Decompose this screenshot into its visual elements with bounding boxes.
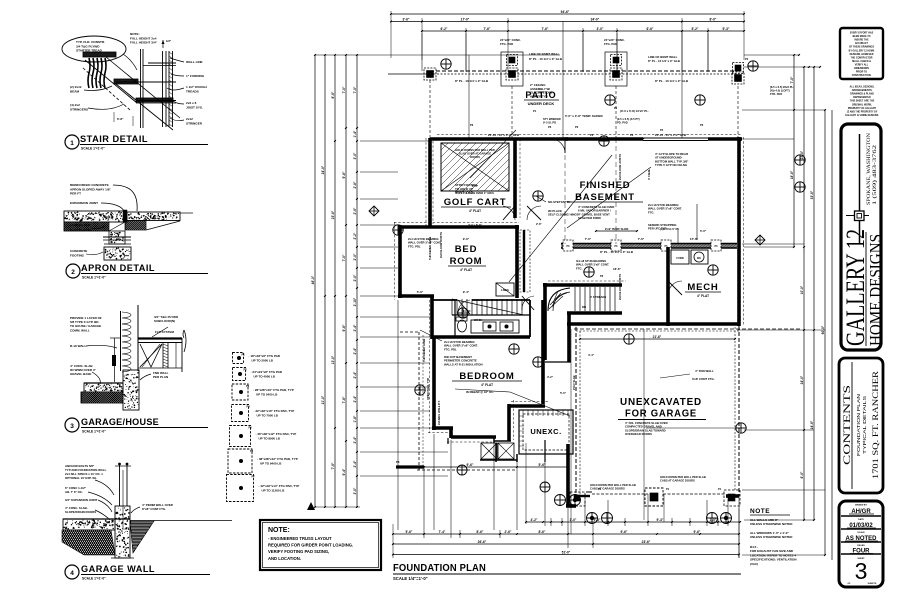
stair flight lower-left with treads — [452, 299, 530, 315]
svg-text:1" FURRING: 1" FURRING — [186, 74, 205, 78]
svg-text:9'-6": 9'-6" — [621, 530, 628, 534]
svg-text:APRON DETAIL: APRON DETAIL — [81, 263, 155, 274]
top dim extension verticals to patio — [422, 33, 738, 137]
svg-text:4" FLAT: 4" FLAT — [460, 268, 472, 272]
svg-text:AB. 7' 6" OC.: AB. 7' 6" OC. — [65, 490, 83, 494]
svg-text:6'-0": 6'-0" — [800, 471, 804, 478]
svg-text:10'-0": 10'-0" — [800, 285, 804, 294]
svg-text:21'-0": 21'-0" — [321, 395, 325, 404]
svg-text:P2: P2 — [745, 57, 749, 61]
detail 2: apron detail drawing — [55, 183, 193, 260]
detail 3: garage/house wall section drawing — [70, 305, 186, 410]
svg-text:FOUNDATION PLAN: FOUNDATION PLAN — [393, 563, 486, 574]
svg-text:2x8 FLOOR JOISTS: 2x8 FLOOR JOISTS — [439, 232, 443, 258]
svg-text:2x8 FLOOR JOISTS: 2x8 FLOOR JOISTS — [618, 274, 622, 300]
svg-text:P6: P6 — [470, 123, 474, 127]
svg-text:SUBFLOOR(N): SUBFLOOR(N) — [154, 319, 175, 323]
svg-text:DESIGNS, HOWEVER: DESIGNS, HOWEVER — [850, 54, 874, 56]
svg-text:ROOM: ROOM — [450, 256, 483, 267]
top dimension line tier 3 — [422, 30, 744, 32]
svg-text:SCALE: SCALE — [857, 531, 865, 534]
svg-text:P2: P2 — [630, 133, 634, 137]
extension lines right walls to right dims — [742, 110, 825, 555]
svg-text:P1: P1 — [718, 487, 722, 491]
svg-text:15'-6": 15'-6" — [690, 237, 699, 241]
svg-text:2'-4": 2'-4" — [353, 436, 357, 443]
svg-text:NOTE:: NOTE: — [268, 527, 290, 534]
heavy black bar P7 marker — [396, 465, 424, 468]
svg-text:4'-2": 4'-2" — [547, 375, 554, 379]
svg-text:8"x8" CONT FTG.: 8"x8" CONT FTG. — [142, 507, 166, 511]
patio pad column line left — [429, 80, 431, 138]
svg-text:- 28"x28"x10" FTG PAD, TYP: - 28"x28"x10" FTG PAD, TYP — [253, 388, 294, 392]
garage wall note right — [660, 369, 715, 381]
golf cart slab pad with X brace — [393, 143, 602, 195]
svg-text:PATIO: PATIO — [525, 90, 556, 100]
svg-text:8" PL - 10 1/4' x 3" GLB: 8" PL - 10 1/4' x 3" GLB — [455, 79, 489, 83]
svg-text:P6: P6 — [600, 274, 604, 278]
svg-text:ALL IDEAS, DESIGNS,: ALL IDEAS, DESIGNS, — [850, 86, 875, 89]
svg-text:3'-0": 3'-0" — [597, 27, 604, 31]
title block: disclaimer box — [840, 28, 883, 79]
svg-text:FTG.: FTG. — [576, 266, 583, 270]
title block: sheet info box — [839, 501, 883, 587]
svg-text:FOUNDATION PLAN: FOUNDATION PLAN — [856, 394, 861, 456]
bedroom west notes — [420, 330, 482, 366]
svg-text:- 18"x18"x8" FTG PAD: - 18"x18"x8" FTG PAD — [249, 354, 281, 358]
svg-text:20(+4.5) (LOFT): 20(+4.5) (LOFT) — [770, 89, 790, 93]
svg-text:15'-6": 15'-6" — [331, 210, 335, 219]
svg-text:FOOTING: FOOTING — [70, 253, 85, 257]
svg-text:4'-2": 4'-2" — [531, 518, 538, 522]
svg-text:P6: P6 — [548, 125, 552, 129]
separator line left of title block — [831, 110, 833, 560]
svg-text:(9.5 x 6.5) (0.5 PT): (9.5 x 6.5) (0.5 PT) — [617, 117, 640, 121]
svg-text:- 24"x24"x8" FTG PAD: - 24"x24"x8" FTG PAD — [251, 370, 283, 374]
plan title: FOUNDATION PLAN — [393, 563, 741, 581]
svg-text:7'-0": 7'-0" — [342, 254, 346, 261]
svg-text:TREADS: TREADS — [186, 89, 199, 93]
svg-text:(9'-0 x 6'-8) 13'x5' PL.: (9'-0 x 6'-8) 13'x5' PL. — [620, 109, 649, 113]
svg-text:FTG. PAD: FTG. PAD — [500, 42, 513, 46]
svg-text:1: 1 — [70, 140, 74, 147]
svg-text:7'-6": 7'-6" — [585, 237, 592, 241]
svg-text:UP TO 2000 LB: UP TO 2000 LB — [252, 358, 274, 362]
svg-text:P2: P2 — [590, 133, 594, 137]
svg-text:5'-0" x 3'-8" TEMP. SLIDER: 5'-0" x 3'-8" TEMP. SLIDER — [565, 114, 604, 118]
svg-text:4'-4": 4'-4" — [588, 353, 595, 357]
detail 1 leader notes — [62, 32, 207, 125]
svg-text:24'-0": 24'-0" — [800, 375, 804, 384]
svg-text:UP TO 4000 LB: UP TO 4000 LB — [254, 374, 276, 378]
svg-text:BED: BED — [455, 244, 477, 255]
svg-text:6'-8": 6'-8" — [117, 117, 124, 121]
svg-text:AND LOCATION.: AND LOCATION. — [268, 556, 301, 561]
svg-text:3'-6": 3'-6" — [403, 17, 410, 21]
svg-text:24'-0": 24'-0" — [321, 165, 325, 174]
svg-text:UP TO 8900 LB: UP TO 8900 LB — [259, 436, 281, 440]
pad markers lower-left cluster — [457, 465, 550, 492]
door swing golf cart to basement — [551, 139, 565, 153]
extra annotation texts upper center — [470, 106, 704, 132]
scattered footing markers — [393, 95, 805, 395]
patio deck footing pad 3 — [605, 52, 627, 86]
svg-text:NO-STEP ENTRY: NO-STEP ENTRY — [548, 200, 571, 204]
svg-text:3'-0 x 6'-8": 3'-0 x 6'-8" — [468, 223, 483, 227]
svg-text:24'-10 - 10' x 4'-2" GLB: 24'-10 - 10' x 4'-2" GLB — [488, 133, 519, 137]
svg-text:CABS AT GARAGE DOORS: CABS AT GARAGE DOORS — [660, 479, 695, 483]
svg-text:EXPANSION JOINT: EXPANSION JOINT — [70, 201, 98, 205]
svg-text:5'-0": 5'-0" — [560, 391, 567, 395]
svg-text:SHALL CHECK &: SHALL CHECK & — [852, 60, 871, 63]
room label: BED ROOM — [417, 237, 486, 294]
extra texts patio right — [648, 55, 794, 96]
svg-text:HOLD DOWN PER WALL PER SLAB: HOLD DOWN PER WALL PER SLAB — [590, 483, 636, 487]
svg-text:REPRESENTED: REPRESENTED — [853, 97, 871, 99]
bath south wall heavy — [433, 335, 530, 339]
mech footing marker — [708, 265, 718, 275]
svg-text:ARRANGEMENTS,: ARRANGEMENTS, — [852, 89, 873, 92]
svg-text:P1: P1 — [614, 106, 618, 110]
bath/hall partition walls — [433, 300, 543, 404]
svg-text:8" PL - 10 1/4' x 3" GLB: 8" PL - 10 1/4' x 3" GLB — [529, 57, 563, 61]
svg-text:P6: P6 — [575, 125, 579, 129]
svg-text:4" FLAT: 4" FLAT — [481, 383, 493, 387]
svg-text:6'-2": 6'-2" — [441, 27, 448, 31]
svg-text:TYPE V GYP ON CELNG: TYPE V GYP ON CELNG — [655, 163, 687, 167]
svg-text:LINE OF BSMT WALL: LINE OF BSMT WALL — [529, 52, 560, 56]
svg-text:FOR GARAGE: FOR GARAGE — [625, 409, 697, 420]
svg-text:94'-6": 94'-6" — [561, 10, 570, 14]
svg-text:3'-0": 3'-0" — [353, 152, 357, 159]
mech closets WH and furnace — [671, 250, 708, 264]
window wells with X lower-left — [481, 443, 514, 459]
svg-text:7'-6": 7'-6" — [542, 27, 549, 31]
svg-text:2'-4": 2'-4" — [353, 347, 357, 354]
garage interior top dim — [580, 338, 735, 340]
svg-text:UP TO 5400 LB: UP TO 5400 LB — [256, 392, 278, 396]
detail 1: stair detail drawing — [83, 39, 180, 130]
svg-text:7'-0": 7'-0" — [342, 86, 346, 93]
svg-text:P5: P5 — [249, 426, 253, 430]
svg-text:ORIGINAL WORK,: ORIGINAL WORK, — [852, 103, 872, 106]
svg-text:2'-10": 2'-10" — [353, 297, 357, 306]
svg-text:BASEMENT: BASEMENT — [575, 192, 635, 203]
logo drafting symbol — [846, 134, 869, 243]
note box: engineered truss layout — [260, 520, 381, 570]
room label: BEDROOM — [452, 371, 522, 394]
svg-text:46'-0": 46'-0" — [311, 275, 315, 284]
extra texts basement interior — [576, 259, 621, 278]
svg-text:THE CONTRACTOR: THE CONTRACTOR — [851, 56, 873, 59]
svg-text:P2: P2 — [660, 128, 664, 132]
svg-text:HOLD DOWN PER WALL PER SLAB: HOLD DOWN PER WALL PER SLAB — [660, 475, 706, 479]
extension lines from wall corners to left dim fan — [360, 141, 448, 476]
svg-text:9'-6": 9'-6" — [467, 463, 474, 467]
mech room walls heavy — [567, 247, 739, 326]
svg-text:P4: P4 — [247, 405, 251, 409]
svg-text:DATE: DATE — [858, 518, 864, 521]
stud wall note above beam — [648, 203, 697, 244]
golf cart door arc — [503, 206, 515, 220]
svg-text:2x8 FLOOR JOISTS: 2x8 FLOOR JOISTS — [618, 154, 622, 180]
svg-text:4" FLAT: 4" FLAT — [469, 209, 481, 213]
patio deck footing pad 2 — [501, 52, 523, 86]
room label: UNEXCAVATED FOR GARAGE — [618, 397, 706, 436]
svg-text:SCALE 1'=1'-0": SCALE 1'=1'-0" — [82, 430, 106, 434]
svg-text:1701 SQ. FT. RANCHER: 1701 SQ. FT. RANCHER — [870, 371, 880, 479]
svg-text:SCALE 1'=1'-0": SCALE 1'=1'-0" — [82, 577, 106, 581]
svg-text:4" FDN WALL: 4" FDN WALL — [695, 369, 714, 373]
svg-text:STRINGER: STRINGER — [186, 121, 203, 125]
hall closets and landing — [496, 230, 530, 296]
basement leader diagonals — [509, 155, 651, 282]
svg-text:21'-6": 21'-6" — [653, 335, 662, 339]
small l-wall near unexc — [448, 438, 517, 462]
svg-text:- ENGINEERED TRUSS LAYOUT: - ENGINEERED TRUSS LAYOUT — [268, 536, 332, 541]
svg-text:24'-10 - 10' x 4'-2" GLB: 24'-10 - 10' x 4'-2" GLB — [655, 133, 686, 137]
svg-text:1/2": 1/2" — [166, 39, 172, 43]
svg-text:WC OH: WC OH — [474, 319, 483, 322]
svg-text:STRINGERS: STRINGERS — [70, 107, 88, 111]
diamond markers — [369, 206, 379, 216]
svg-text:- 38"x38"x12" FTG PAD, TYP: - 38"x38"x12" FTG PAD, TYP — [257, 457, 298, 461]
svg-text:DIMENSIONS: DIMENSIONS — [854, 68, 869, 70]
patio deck footing pad 4 right — [732, 63, 744, 85]
svg-text:12 AND THE PROPERTY OF: 12 AND THE PROPERTY OF — [847, 110, 878, 113]
svg-text:2'-4": 2'-4" — [353, 395, 357, 402]
svg-text:7'-0": 7'-0" — [790, 76, 794, 83]
svg-text:SELF-CLOSING HINGE: SELF-CLOSING HINGE — [548, 213, 579, 217]
golf cart east wall heavy — [513, 138, 517, 218]
svg-text:FULL HEIGHT 3/4": FULL HEIGHT 3/4" — [130, 41, 158, 45]
hall door arcs — [522, 206, 541, 310]
svg-text:3: 3 — [855, 558, 868, 584]
svg-text:6'-6": 6'-6" — [647, 27, 654, 31]
svg-text:1'-4": 1'-4" — [353, 130, 357, 137]
svg-text:[8.5 x 6.5] 22x2 PL.: [8.5 x 6.5] 22x2 PL. — [770, 85, 794, 89]
svg-text:8" PL - 10 1/4' x 3" GLB: 8" PL - 10 1/4' x 3" GLB — [648, 59, 680, 63]
lower-left small dims — [423, 463, 569, 468]
svg-text:UNEXCAVATED: UNEXCAVATED — [620, 397, 702, 408]
svg-text:THIS SHEET ARE THE: THIS SHEET ARE THE — [850, 100, 875, 103]
svg-text:UNLESS OTHERWISE NOTED: UNLESS OTHERWISE NOTED — [750, 535, 793, 539]
patio deck outline dashed — [388, 55, 738, 74]
svg-text:POLY SLAB: POLY SLAB — [572, 375, 576, 390]
svg-text:SLAB PER FNDN: SLAB PER FNDN — [578, 216, 601, 220]
svg-text:3'x8' CONT FTG.: 3'x8' CONT FTG. — [692, 377, 715, 381]
svg-text:COMM. WALL: COMM. WALL — [70, 328, 90, 332]
svg-text:SLOPE/DRAIN DOORS: SLOPE/DRAIN DOORS — [65, 510, 96, 514]
svg-text:OVERHEAD DOORS: OVERHEAD DOORS — [625, 432, 652, 436]
svg-text:(3)4-3'x1.5' PL: (3)4-3'x1.5' PL — [660, 227, 679, 231]
svg-text:1'-8": 1'-8" — [353, 415, 357, 422]
bath fixtures: vanity with two sinks — [471, 319, 519, 333]
svg-text:9'-6": 9'-6" — [694, 530, 701, 534]
svg-text:FTG.: FTG. — [648, 210, 655, 214]
interior rotated dim labels — [428, 154, 651, 390]
garage door hold-down notes — [590, 475, 706, 491]
room label: FINISHED BASEMENT — [567, 180, 643, 220]
svg-text:5'-2": 5'-2" — [692, 27, 699, 31]
pads at unexc corner — [555, 495, 581, 506]
bath fixtures: toilet — [456, 317, 467, 332]
patio deck footing pad P1 left — [424, 68, 436, 80]
svg-text:SCALE 1/4"=1'-0": SCALE 1/4"=1'-0" — [393, 576, 428, 581]
svg-text:BEDROOM: BEDROOM — [459, 371, 514, 382]
svg-text:4' 0 BAL: 4' 0 BAL — [647, 169, 651, 180]
svg-text:VERIFY ALL: VERIFY ALL — [855, 63, 869, 66]
svg-text:GARAGE/HOUSE: GARAGE/HOUSE — [81, 417, 159, 428]
svg-text:INSURE THE: INSURE THE — [854, 40, 869, 42]
svg-text:STARTER TREAD: STARTER TREAD — [76, 49, 103, 53]
svg-text:8'-0 x 4'-0 SLAB OVER 4" GRVL: 8'-0 x 4'-0 SLAB OVER 4" GRVL — [456, 191, 495, 195]
svg-text:9'x9' TEMP. SLDR.: 9'x9' TEMP. SLDR. — [605, 227, 629, 231]
svg-text:PROPERTY OF GALLERY: PROPERTY OF GALLERY — [848, 107, 877, 110]
svg-text:4: 4 — [70, 570, 74, 577]
svg-text:2'-4": 2'-4" — [353, 324, 357, 331]
svg-text:P1: P1 — [533, 109, 537, 113]
svg-text:9'-3": 9'-3" — [657, 518, 664, 522]
svg-text:JOIST SYS.: JOIST SYS. — [186, 105, 203, 109]
golf cart west wall heavy — [428, 138, 432, 227]
svg-text:BEAM: BEAM — [70, 89, 80, 93]
svg-text:NOTE: NOTE — [750, 508, 770, 515]
svg-text:REQUIRED FOR GIRDER POINT LOAD: REQUIRED FOR GIRDER POINT LOADING. — [268, 543, 353, 548]
svg-text:STY WINDOW: STY WINDOW — [543, 117, 561, 121]
patio annotation texts — [455, 38, 689, 98]
patio pad column line 2 — [511, 86, 513, 138]
svg-text:8'-0": 8'-0" — [472, 184, 479, 188]
left dimension lines fan — [311, 54, 391, 508]
svg-text:P1: P1 — [242, 353, 246, 357]
svg-text:9'-6": 9'-6" — [463, 237, 470, 241]
detail 1 title: STAIR DETAIL — [65, 134, 208, 151]
title block: GALLERY 12 HOME DESIGNS logo box — [841, 124, 885, 350]
patio pad column line 3 — [615, 86, 617, 138]
svg-text:CONSTRUCTION.: CONSTRUCTION. — [852, 75, 872, 77]
svg-text:7'-6": 7'-6" — [484, 27, 491, 31]
svg-text:7'-8": 7'-8" — [342, 396, 346, 403]
svg-text:2'-2": 2'-2" — [353, 232, 357, 239]
interior extension lines vertical dashed — [469, 21, 682, 534]
svg-text:R-19 WALL: R-19 WALL — [70, 344, 86, 348]
svg-text:CONTENTS: CONTENTS — [843, 385, 853, 465]
svg-text:GARAGE WALL: GARAGE WALL — [81, 564, 155, 575]
garage dashed outline — [576, 326, 739, 500]
svg-text:WH: WH — [697, 257, 701, 260]
svg-text:2'-0": 2'-0" — [353, 274, 357, 281]
unexc south walls heavy — [517, 440, 576, 506]
svg-text:SCALE 1'=1'-0": SCALE 1'=1'-0" — [82, 276, 106, 280]
unexc small room double walls — [519, 410, 573, 454]
notes list bottom right — [750, 508, 797, 566]
svg-text:33'-6": 33'-6" — [810, 190, 814, 199]
svg-text:HOME DESIGNS: HOME DESIGNS — [866, 234, 885, 346]
svg-text:P6: P6 — [700, 123, 704, 127]
svg-text:18'-6": 18'-6" — [613, 267, 621, 271]
room label: MECH — [685, 282, 721, 298]
svg-text:P7: P7 — [252, 475, 256, 479]
detail 4: garage wall section drawing — [45, 463, 232, 558]
svg-text:UP TO 11200 LB: UP TO 11200 LB — [262, 488, 286, 492]
svg-text:STAIR DETAIL: STAIR DETAIL — [80, 134, 148, 145]
east outer wall heavy — [737, 137, 741, 326]
center beam with pads — [557, 237, 746, 254]
svg-text:SLAB OVER AT GARAGE: SLAB OVER AT GARAGE — [459, 152, 491, 156]
bottom dimension tiers — [392, 508, 741, 558]
svg-text:5'-6": 5'-6" — [406, 530, 413, 534]
svg-text:BY GALLERY 12 HOME: BY GALLERY 12 HOME — [849, 49, 875, 52]
crawl dashed lines lower-left — [400, 332, 517, 470]
svg-text:2'-8": 2'-8" — [353, 181, 357, 188]
svg-text:P3: P3 — [246, 384, 250, 388]
svg-text:4' 0 TREADS: 4' 0 TREADS — [590, 295, 606, 299]
basement entry notes left — [536, 196, 579, 217]
svg-text:2x6 BRG WALL P.T.: 2x6 BRG WALL P.T. — [437, 400, 441, 425]
svg-text:26'-6": 26'-6" — [478, 540, 487, 544]
svg-text:GALLERY 12 HOME DESIGNS.: GALLERY 12 HOME DESIGNS. — [845, 114, 879, 117]
svg-text:51'-0": 51'-0" — [562, 550, 571, 554]
svg-text:9'-0 SL PD: 9'-0 SL PD — [543, 121, 556, 125]
svg-text:WALL LINE: WALL LINE — [186, 60, 203, 64]
svg-text:P1: P1 — [666, 487, 670, 491]
svg-text:SCALE 1'=1'-0": SCALE 1'=1'-0" — [81, 147, 105, 151]
svg-text:8'-0": 8'-0" — [710, 17, 717, 21]
svg-text:SHEETS: SHEETS — [868, 583, 877, 585]
bedroom lower walls heavy — [432, 337, 545, 443]
svg-text:PRIOR TO: PRIOR TO — [856, 72, 867, 74]
room label: PATIO UNDER DECK — [524, 90, 559, 106]
room label: GOLF CART — [441, 197, 511, 213]
bedroom leader diagonal to unexc — [510, 392, 570, 416]
svg-text:GRAVEL BASE: GRAVEL BASE — [70, 372, 91, 376]
detail 2 title: APRON DETAIL — [66, 263, 208, 280]
svg-text:3: 3 — [70, 423, 74, 430]
svg-text:13'-0": 13'-0" — [331, 355, 335, 364]
svg-text:8" PL - 10 1/4' x 3" GLB: 8" PL - 10 1/4' x 3" GLB — [655, 79, 689, 83]
svg-text:GOLF CART: GOLF CART — [444, 197, 507, 208]
svg-text:2'-6": 2'-6" — [505, 530, 512, 534]
svg-text:FLR SYSTEM: FLR SYSTEM — [155, 330, 175, 334]
garage footing marker right — [736, 423, 746, 433]
mech door arc — [668, 281, 682, 295]
svg-text:EVERY EFFORT HAS: EVERY EFFORT HAS — [850, 32, 874, 35]
svg-text:DOORS: DOORS — [470, 155, 480, 159]
svg-text:VERIFY FOOTING PAD SIZING,: VERIFY FOOTING PAD SIZING, — [268, 549, 329, 554]
svg-text:(VAC): (VAC) — [750, 562, 758, 566]
svg-text:WALLS AT R-21 INSULATION: WALLS AT R-21 INSULATION — [444, 362, 482, 366]
svg-text:9'-4": 9'-4" — [463, 290, 470, 294]
svg-text:P2: P2 — [244, 368, 248, 372]
svg-text:7'-6": 7'-6" — [331, 462, 335, 469]
footing marker circles top — [441, 59, 451, 69]
svg-text:UNDER DECK: UNDER DECK — [528, 101, 555, 106]
svg-text:GRAVEL BASE: GRAVEL BASE — [70, 227, 92, 231]
svg-text:HOLD DOWNS PER WALL PER: HOLD DOWNS PER WALL PER — [455, 148, 495, 152]
svg-text:1'-0": 1'-0" — [570, 518, 577, 522]
svg-text:6'-4": 6'-4" — [342, 468, 346, 475]
svg-text:4" FLAT: 4" FLAT — [697, 294, 709, 298]
title block: contents box — [839, 358, 883, 493]
stair curved wall arc — [548, 288, 570, 311]
detail 4 title: GARAGE WALL — [65, 564, 210, 581]
svg-text:MECH: MECH — [687, 282, 718, 293]
small interior dims — [468, 109, 707, 395]
garage south wall with door openings — [570, 487, 740, 506]
svg-text:2'-0": 2'-0" — [353, 253, 357, 260]
svg-text:2: 2 — [71, 269, 75, 276]
